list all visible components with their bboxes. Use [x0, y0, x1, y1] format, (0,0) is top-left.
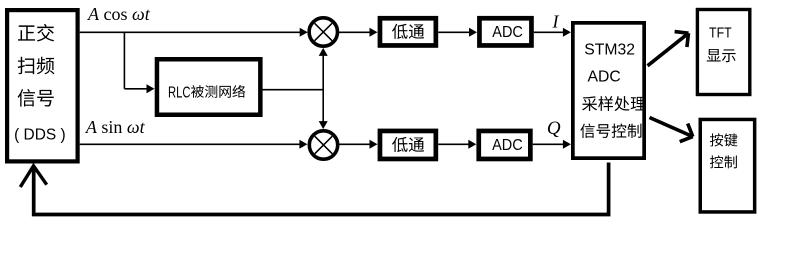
arrowhead up into mixer M1: [319, 48, 328, 56]
wire: RLC output to junction: [260, 89, 323, 91]
wire: junction vertical to both mixers: [322, 50, 324, 128]
label: 按键: [710, 133, 737, 146]
label: 正交: [18, 24, 54, 42]
svg-text:RLC: RLC: [168, 85, 191, 102]
arrow: STM32 to key control: [650, 118, 693, 142]
arrowhead down into mixer M2: [319, 121, 328, 129]
arrowhead into lowpass 1: [370, 28, 378, 37]
svg-text:ADC: ADC: [492, 24, 523, 41]
svg-text:A cos ωt: A cos ωt: [87, 4, 151, 24]
label: 控制: [710, 155, 737, 168]
svg-text:( DDS ): ( DDS ): [14, 127, 66, 144]
label: 采样处理: [582, 96, 646, 111]
svg-text:STM32: STM32: [584, 42, 635, 59]
block: STM32 controller: [573, 23, 644, 158]
wire: ADC 2 to STM32 (Q): [533, 143, 565, 145]
svg-text:A sin ωt: A sin ωt: [85, 117, 146, 137]
block: ADC 2: [479, 131, 531, 159]
wire: sin output to mixer M2: [80, 143, 301, 145]
wire: mixer M2 to lowpass 2: [337, 143, 371, 145]
arrowhead into mixer M2 left: [299, 140, 307, 149]
block: RLC network under test: [157, 59, 260, 115]
block: TFT display: [697, 10, 749, 95]
svg-text:Q: Q: [547, 118, 561, 139]
svg-text:ADC: ADC: [588, 68, 621, 85]
label: 被测网络: [191, 85, 245, 98]
svg-text:ADC: ADC: [492, 137, 523, 154]
wire: ADC 1 to STM32 (I): [534, 31, 565, 33]
wire: cos output to mixer M1: [80, 31, 301, 33]
arrowhead into lowpass 2: [370, 140, 378, 149]
arrowhead into ADC 2: [468, 140, 476, 149]
arrowhead into mixer M1: [300, 28, 308, 37]
wire: branch to RLC (horizontal): [124, 88, 148, 90]
wire: mixer M1 to lowpass 1: [337, 31, 371, 33]
label: 信号: [18, 89, 54, 107]
arrowhead into ADC 1: [469, 28, 477, 37]
arrowhead: feedback into DDS (open chevron): [20, 166, 46, 187]
label: 低通 (bottom): [392, 137, 424, 152]
wire: branch down to RLC (vertical): [123, 32, 125, 89]
block: key control (按键控制): [700, 119, 754, 212]
label: 低通 (top): [392, 24, 424, 39]
arrow: STM32 to TFT display: [648, 32, 689, 66]
label: 信号控制: [580, 123, 641, 138]
wire: lowpass 2 to ADC 2: [438, 143, 470, 145]
svg-text:TFT: TFT: [709, 25, 732, 42]
arrowhead into RLC network: [147, 84, 155, 93]
label: 显示: [707, 49, 736, 62]
label: 扫频: [18, 57, 55, 75]
arrowhead into STM32 (Q): [563, 140, 571, 149]
wire: lowpass 1 to ADC 1: [438, 31, 470, 33]
block: lowpass filter 2 (低通): [380, 131, 436, 159]
svg-text:I: I: [552, 12, 560, 32]
wire: feedback from STM32 to DDS: [34, 163, 609, 215]
arrowhead into STM32 (I): [563, 28, 571, 37]
block: lowpass filter 1 (低通): [380, 18, 436, 45]
block: ADC 1: [479, 18, 531, 45]
mixer M1 (top multiplier): [309, 18, 337, 46]
mixer M2 (bottom multiplier): [309, 131, 337, 159]
block: DDS quadrature sweep signal source: [7, 10, 78, 161]
